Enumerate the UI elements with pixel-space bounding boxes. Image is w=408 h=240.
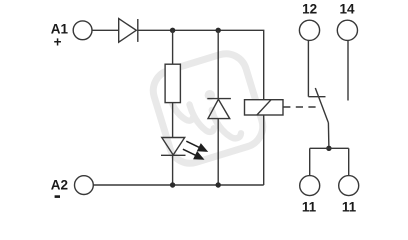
wire diode to coil branch corner bbox=[138, 30, 264, 99]
diode D1 (series, anode left) bbox=[119, 19, 138, 43]
svg-text:12: 12 bbox=[302, 1, 317, 16]
LED V1 bbox=[161, 138, 186, 156]
wire LED to bottom rail bbox=[172, 155, 174, 185]
terminal 12 circle bbox=[299, 20, 319, 40]
node junction bottom at LED branch bbox=[170, 182, 175, 187]
wire resistor to LED bbox=[172, 103, 174, 138]
node junction top at freewheel branch bbox=[216, 28, 221, 33]
wire bar to terminal 11 left bbox=[309, 148, 311, 175]
wire blade to common junction bbox=[327, 123, 330, 149]
common bar wire bbox=[310, 147, 349, 149]
node junction top at resistor branch bbox=[170, 28, 175, 33]
wire top rail to resistor bbox=[172, 30, 174, 64]
svg-text:A2: A2 bbox=[51, 177, 68, 192]
wire coil to bottom rail bbox=[263, 115, 265, 185]
terminal 11 left circle bbox=[300, 176, 320, 196]
wire A1 to diode bbox=[92, 29, 119, 31]
svg-text:11: 11 bbox=[342, 200, 357, 215]
node common junction bbox=[326, 146, 331, 151]
terminal 11 right circle bbox=[339, 176, 359, 196]
node junction bottom at freewheel branch bbox=[216, 182, 221, 187]
LED emission arrow 1 bbox=[186, 141, 208, 152]
terminal 14 circle bbox=[337, 20, 357, 40]
terminal A2 circle bbox=[75, 176, 94, 195]
wire bar to terminal 11 right bbox=[348, 148, 350, 175]
resistor R1 bbox=[165, 64, 180, 102]
movable contact blade bbox=[315, 88, 328, 123]
minus sign bbox=[55, 195, 60, 198]
wire terminal 12 down bbox=[307, 41, 309, 97]
freewheeling diode V2 (cathode up) bbox=[207, 99, 231, 119]
relay coil K1 bbox=[245, 100, 284, 115]
bottom rail wire A2 to coil branch bbox=[93, 184, 263, 186]
dashed mechanical link coil to contact bbox=[283, 106, 318, 108]
wire freewheel diode to bottom rail bbox=[217, 119, 219, 185]
LED emission arrow 2 bbox=[183, 149, 205, 160]
wire terminal 14 down (NO fixed contact) bbox=[347, 41, 349, 101]
svg-text:+: + bbox=[54, 35, 62, 50]
terminal A1 circle bbox=[73, 21, 92, 40]
svg-text:11: 11 bbox=[302, 200, 317, 215]
wire top rail to freewheel diode bbox=[217, 30, 219, 98]
svg-text:14: 14 bbox=[339, 1, 355, 16]
fixed contact 12 (L shape) bbox=[308, 96, 325, 98]
watermark (decorative) drawn first, unlabeled group bbox=[148, 49, 268, 169]
